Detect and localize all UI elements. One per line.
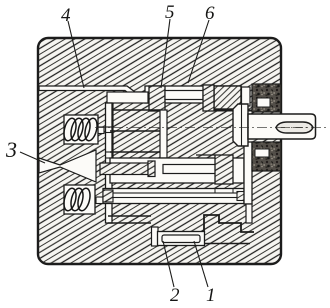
svg-text:6: 6 <box>205 3 215 24</box>
svg-text:3: 3 <box>5 137 17 162</box>
svg-text:1: 1 <box>206 285 216 306</box>
svg-text:4: 4 <box>61 5 71 26</box>
svg-text:2: 2 <box>170 285 180 306</box>
svg-text:5: 5 <box>165 2 175 23</box>
